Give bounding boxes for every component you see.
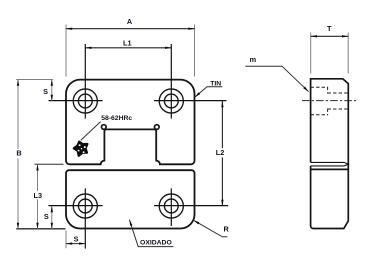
dimension L1: arrowheads (85, 47, 91, 49)
dimension A: arrowheads (66, 28, 72, 30)
counterbored hole top-left: outer circle (73, 89, 97, 113)
leader m: arrowhead (303, 87, 308, 92)
counterbored hole bottom-right: outer circle (159, 194, 183, 218)
notch corner relief circle right (155, 125, 160, 130)
leader OXIDADO: underline and leader line (129, 220, 173, 247)
leader OXIDADO: arrowhead (129, 220, 132, 226)
dimension L3: arrowheads (36, 164, 38, 170)
side view: slit wedge lines (311, 162, 349, 166)
centerline horizontal, hole bottom-right (serves L2 extension) (154, 205, 228, 207)
dimension T: left extension line (310, 33, 312, 74)
dimension B: label (14, 149, 24, 158)
dimension L1: dimension line (85, 47, 171, 49)
dimension B: bottom shared extension line (16, 228, 65, 230)
hardness zone gear symbol (74, 142, 88, 156)
svg-text:S: S (74, 235, 79, 244)
svg-text:58-62HRc: 58-62HRc (101, 115, 132, 122)
counterbored hole top-right: inner circle (164, 94, 178, 108)
svg-text:T: T (327, 24, 332, 33)
side view hidden small hole: top line (328, 92, 349, 94)
dimension S (bottom horizontal): arrowheads (66, 242, 72, 244)
dimension S (bottom left): dimension line (51, 206, 53, 229)
dimension L2: arrowheads (221, 101, 223, 107)
centerline horizontal, hole bottom-left (serves S extension) (49, 205, 103, 207)
svg-text:S: S (44, 212, 49, 221)
side view hole centerline (302, 100, 357, 102)
counterbored hole bottom-right: inner circle (164, 199, 178, 213)
front view: upper plate outline with bottom-center notch (66, 80, 195, 165)
dimension T: dimension line (311, 35, 349, 37)
dimension S (bottom left): arrowheads (51, 206, 53, 212)
counterbored hole top-right: outer circle (159, 89, 183, 113)
dimension B: dimension line (17, 80, 19, 230)
svg-text:L2: L2 (216, 148, 225, 157)
side view: upper body outline (311, 79, 349, 164)
svg-text:R: R (223, 225, 229, 234)
svg-text:OXIDADO: OXIDADO (140, 239, 172, 246)
dimension L3: label (32, 191, 43, 200)
dimension A: left extension line (65, 25, 67, 77)
svg-text:B: B (16, 149, 21, 158)
leader R: arrowhead (193, 220, 199, 224)
leader R: landing and leader line (193, 220, 227, 237)
dimension L2: dimension line (221, 101, 223, 206)
leader TIN: arrowhead (195, 92, 200, 97)
dimension B: arrowheads (17, 80, 19, 86)
dimension S (bottom horizontal): extension line (65, 231, 67, 249)
centerline vertical, hole bottom-left (serves bottom S extension) (84, 188, 86, 248)
dimension A: right extension line (194, 25, 196, 77)
front view: lower plate outline (66, 170, 195, 228)
leader 58-62HRc: leader line (81, 122, 101, 141)
svg-text:S: S (43, 87, 48, 96)
svg-text:m: m (250, 55, 257, 64)
leader m: landing and leader line (245, 66, 308, 92)
dimension T: arrowheads (311, 35, 317, 37)
centerline vertical, hole top-right (serves L1 extension) (170, 44, 172, 119)
dimension A: dimension line (66, 28, 195, 30)
counterbored hole top-left: inner circle (78, 94, 92, 108)
centerline horizontal, hole top-left (serves S extension) (49, 100, 103, 102)
side view hidden counterbore: bottom line (311, 114, 328, 116)
notch corner relief circle left (102, 125, 107, 130)
dimension S (top): arrowheads (51, 80, 53, 86)
centerline horizontal, hole top-right (serves L2 extension) (154, 100, 226, 102)
dimension L2: label (215, 148, 226, 157)
side view hidden small hole: bottom line (328, 108, 349, 110)
side view hidden counterbore: step vertical top (327, 87, 329, 94)
centerline vertical, hole bottom-right (170, 188, 172, 226)
side view hidden counterbore: step vertical bottom (327, 109, 329, 116)
counterbored hole bottom-left: outer circle (73, 194, 97, 218)
dimension S (bottom horizontal): dimension line (66, 243, 85, 245)
dimension T: right extension line (347, 33, 349, 74)
side view: lower body outline (311, 164, 349, 228)
leader TIN: landing and leader line (195, 87, 223, 98)
dimension S (top): dimension line (51, 80, 53, 102)
svg-text:L1: L1 (123, 38, 132, 47)
counterbored hole bottom-left: inner circle (78, 199, 92, 213)
svg-text:A: A (127, 17, 133, 26)
side view hidden counterbore: top line (311, 86, 328, 88)
centerline vertical, hole top-left (serves L1 extension) (84, 44, 86, 119)
dimension B: top extension line (16, 79, 53, 81)
dimension L3: dimension line (37, 164, 39, 229)
svg-text:L3: L3 (34, 191, 43, 200)
dimension L3: top extension line (35, 163, 64, 165)
